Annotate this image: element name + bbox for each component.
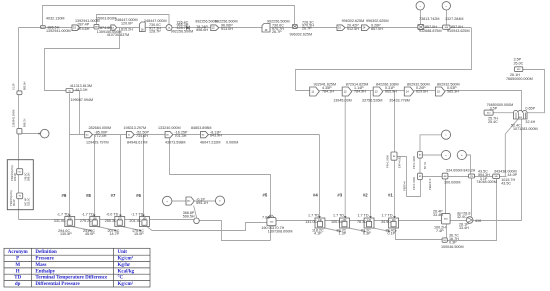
svg-text:0.000M: 0.000M xyxy=(226,140,238,144)
svg-text:287.4P: 287.4P xyxy=(78,22,90,26)
wire: box81-box82 link xyxy=(419,158,421,173)
svg-text:913.0H: 913.0H xyxy=(221,27,233,31)
feedwater heater 3 xyxy=(340,218,350,228)
svg-text:45.0P: 45.0P xyxy=(85,232,95,236)
svg-text:84803.898M: 84803.898M xyxy=(191,126,212,130)
svg-text:M: M xyxy=(15,263,20,268)
svg-text:#9: #9 xyxy=(62,193,67,198)
wire: circ water outlet box310 to condenser xyxy=(493,112,513,114)
svg-text:128.7P: 128.7P xyxy=(149,30,161,34)
wire: box81 up to circle C xyxy=(420,135,441,152)
splitter node 50 xyxy=(66,89,73,93)
svg-text:100.000M: 100.000M xyxy=(444,181,460,185)
wire: boiler feed pump to deaerator bottom xyxy=(199,221,270,241)
svg-text:-1.7 TD: -1.7 TD xyxy=(57,213,70,217)
svg-text:120.0P: 120.0P xyxy=(121,22,133,26)
gland seal circle left xyxy=(163,196,172,205)
svg-text:78.3C: 78.3C xyxy=(357,220,367,224)
deaerator 150 xyxy=(267,217,276,225)
valve 500 bypass admission xyxy=(292,25,297,29)
svg-text:784.1H: 784.1H xyxy=(322,89,334,93)
wire: HP exhaust cold line to node 50 xyxy=(45,28,120,91)
svg-text:595.1H: 595.1H xyxy=(196,201,208,205)
valve 430 xyxy=(94,24,99,29)
valve 30 xyxy=(187,26,190,30)
svg-text:-1.7 TD: -1.7 TD xyxy=(131,213,144,217)
svg-text:46047.232M: 46047.232M xyxy=(200,140,221,144)
vent box 170 xyxy=(469,174,475,178)
svg-text:500: 500 xyxy=(443,240,446,242)
svg-text:H: H xyxy=(16,269,20,274)
wire: condensate from condenser to pump 410 xyxy=(473,119,522,221)
svg-text:133240.000M: 133240.000M xyxy=(158,126,181,130)
svg-text:13945.03M: 13945.03M xyxy=(333,98,351,102)
svg-text:129429.797M: 129429.797M xyxy=(86,140,109,144)
svg-text:996302.625M: 996302.625M xyxy=(290,32,313,36)
condenser 300 xyxy=(514,110,528,119)
svg-text:EFF=0.82: EFF=0.82 xyxy=(398,156,402,168)
svg-text:198313.297M: 198313.297M xyxy=(124,126,147,130)
turbine stage 24 xyxy=(362,25,370,31)
svg-text:7.0dP: 7.0dP xyxy=(262,215,272,219)
circ water outlet 310 xyxy=(484,110,493,115)
svg-text:-0.0 TD: -0.0 TD xyxy=(106,213,119,217)
svg-text:1.7 TD: 1.7 TD xyxy=(308,214,319,218)
LP turbine stage 14 xyxy=(404,87,414,96)
svg-text:996302.625M: 996302.625M xyxy=(366,19,389,23)
LP turbine stage 15 xyxy=(435,87,445,96)
svg-text:#2: #2 xyxy=(363,193,368,198)
svg-text:874.6H: 874.6H xyxy=(78,27,90,31)
svg-text:857.0H: 857.0H xyxy=(371,27,383,31)
svg-text:883.0H: 883.0H xyxy=(23,82,27,90)
svg-text:141.0C: 141.0C xyxy=(305,220,317,224)
feedwater heater 7 xyxy=(115,217,125,227)
svg-text:Differential Pressure: Differential Pressure xyxy=(35,282,80,287)
svg-text:33756.526M: 33756.526M xyxy=(362,98,383,102)
svg-text:813.3H: 813.3H xyxy=(76,88,88,92)
svg-text:32.0C: 32.0C xyxy=(457,215,467,219)
wire: box400 down to polisher xyxy=(445,179,447,214)
wire: deaerator steam supply jog xyxy=(170,138,271,218)
condensate pump 410 xyxy=(466,217,473,224)
svg-text:76650000.000M: 76650000.000M xyxy=(506,77,533,81)
svg-text:169.0P: 169.0P xyxy=(13,173,17,181)
LP turbine stage 12 xyxy=(342,87,352,96)
svg-text:#5: #5 xyxy=(263,192,268,197)
turbine stage 22 xyxy=(211,25,219,31)
svg-text:15003.602M: 15003.602M xyxy=(96,16,117,20)
svg-text:599.5H: 599.5H xyxy=(183,215,195,219)
svg-text:910943.625M: 910943.625M xyxy=(447,29,470,33)
wire: box 80 side branch to box 82 xyxy=(397,157,421,197)
wire: drains manifold y=176.3 xyxy=(422,176,506,178)
feedwater heater 4 xyxy=(315,218,325,228)
svg-text:410: 410 xyxy=(475,219,481,223)
svg-text:4032.130M: 4032.130M xyxy=(46,17,64,21)
svg-text:1392941.000M: 1392941.000M xyxy=(12,110,16,127)
svg-text:815.2H: 815.2H xyxy=(121,27,133,31)
svg-text:~: ~ xyxy=(445,4,447,8)
svg-text:#4: #4 xyxy=(313,192,318,197)
svg-text:0.1P: 0.1P xyxy=(388,232,396,236)
svg-text:898.6H: 898.6H xyxy=(196,28,208,32)
main steam line component upper xyxy=(17,91,22,95)
svg-text:130.5P: 130.5P xyxy=(60,232,72,236)
svg-text:629.6H: 629.6H xyxy=(416,89,428,93)
svg-text:74048.000M: 74048.000M xyxy=(476,180,497,184)
svg-text:Enthalpy: Enthalpy xyxy=(35,269,55,274)
svg-text:784.9H: 784.9H xyxy=(354,89,366,93)
circ water inlet 320 xyxy=(514,67,522,72)
feedwater heater 8 xyxy=(90,217,100,227)
svg-text:51.2P: 51.2P xyxy=(12,83,16,90)
svg-text:1.7 TD: 1.7 TD xyxy=(358,214,369,218)
svg-text:665.9H: 665.9H xyxy=(385,89,397,93)
svg-text:-1.7 TD: -1.7 TD xyxy=(82,213,95,217)
wire: extraction drop to heater 2 xyxy=(370,91,372,219)
svg-text:0.65P: 0.65P xyxy=(525,107,535,111)
svg-text:772.4H: 772.4H xyxy=(95,134,107,138)
wire: gland steam regulator links xyxy=(172,201,216,218)
svg-text:33.4H: 33.4H xyxy=(459,226,469,230)
moisture separator 26 xyxy=(139,22,145,31)
legend table xyxy=(4,248,150,287)
wire: extraction drop to heater 3 xyxy=(344,91,346,219)
svg-text:15.0P: 15.0P xyxy=(134,232,144,236)
leakage box 80 xyxy=(391,152,397,160)
wire: box 170 down to pump 410 xyxy=(471,178,473,217)
IP turbine stage 40 xyxy=(85,131,93,137)
svg-text:99.0P: 99.0P xyxy=(12,199,16,206)
turbine stage 13 xyxy=(111,25,117,30)
LP turbine stage 13 xyxy=(373,87,383,96)
svg-text:992256.500M: 992256.500M xyxy=(215,19,238,23)
svg-text:°C: °C xyxy=(118,276,124,281)
IP turbine stage 80 xyxy=(165,131,173,137)
svg-text:Unit: Unit xyxy=(118,250,128,255)
wire: box340 drain down to drain cooler xyxy=(447,179,496,241)
boiler feed pump xyxy=(194,218,200,224)
wire: extraction drop to heater 8 xyxy=(94,135,96,217)
wire: extraction drop to heater 7 xyxy=(120,135,122,217)
svg-text:73813.742M: 73813.742M xyxy=(419,17,440,21)
svg-text:PR=1.3000: PR=1.3000 xyxy=(412,155,416,169)
svg-text:33.4H: 33.4H xyxy=(433,213,443,217)
IP turbine stage 90 xyxy=(201,131,209,137)
svg-text:586.5H: 586.5H xyxy=(27,173,31,181)
wire: spray line to circle xyxy=(22,133,41,135)
feedwater heater 1 xyxy=(389,218,399,228)
wire: LP turbine row y=90.8 xyxy=(296,91,522,112)
svg-text:0.3P: 0.3P xyxy=(363,232,371,236)
svg-text:331.0C: 331.0C xyxy=(54,219,66,223)
svg-text:992256.500M: 992256.500M xyxy=(171,29,194,33)
svg-text:32.4H: 32.4H xyxy=(525,120,535,124)
drain receiver circle B xyxy=(457,150,466,159)
drain cooler 500 xyxy=(442,238,447,242)
svg-text:14.7P: 14.7P xyxy=(110,232,120,236)
wire: boiler downcomer xyxy=(18,210,20,220)
svg-text:1071283.000M: 1071283.000M xyxy=(513,127,538,131)
svg-text:Acronym: Acronym xyxy=(8,250,29,255)
svg-text:TD: TD xyxy=(18,172,21,174)
wire: air ejector line from condenser xyxy=(505,119,518,177)
svg-text:912688.875M: 912688.875M xyxy=(419,29,442,33)
svg-text:3.5P: 3.5P xyxy=(490,106,498,110)
generator 2 xyxy=(442,2,450,10)
svg-text:7.4P: 7.4P xyxy=(436,229,444,233)
wire: generator stem 1 xyxy=(420,10,422,25)
wire: box81 to circle A xyxy=(422,154,441,156)
svg-text:255.3C: 255.3C xyxy=(105,219,117,223)
wire: main steam header from boiler riser to throttle valve xyxy=(19,27,41,29)
wire: heater drain cascades right group xyxy=(322,228,390,232)
throttle valve 420 xyxy=(41,26,46,29)
svg-text:#6: #6 xyxy=(136,193,141,198)
wire: boiler internal risers xyxy=(18,160,20,210)
generator shaft box 420 xyxy=(443,25,450,29)
svg-text:35433.778M: 35433.778M xyxy=(389,98,410,102)
generator shaft box 500 xyxy=(418,25,424,30)
feedwater heater 6 xyxy=(140,217,150,227)
leakage box 82 xyxy=(418,173,423,180)
wire: node 50 drops to IP row xyxy=(70,91,80,217)
svg-text:#8: #8 xyxy=(86,193,91,198)
spray attemperator circle xyxy=(40,129,49,138)
wire: extraction drop to heater 4 xyxy=(319,135,321,219)
svg-text:410730.837M: 410730.837M xyxy=(107,33,130,37)
svg-text:643.9H: 643.9H xyxy=(210,134,222,138)
svg-text:1.3P: 1.3P xyxy=(339,232,347,236)
svg-text:Pressure: Pressure xyxy=(35,257,54,262)
main steam line component lower xyxy=(17,129,22,134)
svg-text:65.7H: 65.7H xyxy=(423,162,427,169)
svg-text:26.7P: 26.7P xyxy=(302,27,312,31)
svg-text:dp: dp xyxy=(15,282,21,287)
svg-text:1327.284M: 1327.284M xyxy=(445,17,463,21)
turbine stage 19 LP admission xyxy=(337,25,345,31)
svg-text:279.2C: 279.2C xyxy=(80,219,92,223)
condensate polisher 460 xyxy=(441,214,450,224)
svg-text:#1: #1 xyxy=(388,193,393,198)
svg-text:1392941.000M: 1392941.000M xyxy=(46,29,71,33)
ejector condenser 340 xyxy=(493,174,500,179)
svg-text:201.4C: 201.4C xyxy=(129,219,141,223)
boiler TD box xyxy=(17,169,23,175)
generator 1 xyxy=(416,2,424,10)
LP turbine stage 11 xyxy=(310,87,320,96)
svg-text:#7: #7 xyxy=(111,193,116,198)
svg-text:996302.625M: 996302.625M xyxy=(342,19,365,23)
wire: polisher down to drain cooler xyxy=(446,224,448,238)
wire: circle B down to box 170 xyxy=(466,155,470,174)
svg-text:100.4C: 100.4C xyxy=(331,220,343,224)
svg-text:701.3H: 701.3H xyxy=(175,134,187,138)
svg-text:4.1P: 4.1P xyxy=(314,232,322,236)
svg-text:1.7 TD: 1.7 TD xyxy=(333,214,344,218)
gland seal circle right xyxy=(215,196,224,205)
svg-text:Definition: Definition xyxy=(35,250,57,255)
wire: feedwater line through HP heaters y=219 xyxy=(19,219,194,221)
svg-text:734.6H: 734.6H xyxy=(136,134,148,138)
wire: generator stem 2 xyxy=(446,10,448,25)
svg-text:0.3P: 0.3P xyxy=(449,240,457,244)
svg-text:TD: TD xyxy=(14,276,21,281)
svg-text:26.7P: 26.7P xyxy=(272,30,282,34)
gland exhaust circle xyxy=(441,130,450,139)
svg-text:898.7H: 898.7H xyxy=(23,119,27,127)
svg-text:Kg/cm²: Kg/cm² xyxy=(118,281,134,287)
gland steam regulator 440 xyxy=(186,197,194,205)
svg-text:43.5C: 43.5C xyxy=(501,181,511,185)
drain receiver circle A xyxy=(441,150,450,159)
wire: extraction drop to heater 6 xyxy=(143,135,145,217)
boiler drum box xyxy=(17,193,23,199)
svg-text:199087.094M: 199087.094M xyxy=(71,98,94,102)
feedwater heater 2 xyxy=(364,218,374,228)
svg-text:Mass: Mass xyxy=(35,263,46,268)
wire: IP extraction row y=134.6 xyxy=(70,134,320,136)
svg-text:1.7 TD: 1.7 TD xyxy=(382,214,393,218)
wire: main steam through HP turbine train y=27.5 xyxy=(45,27,471,29)
svg-text:282684.000M: 282684.000M xyxy=(89,126,112,130)
svg-text:Kg/hr: Kg/hr xyxy=(118,263,132,268)
svg-text:333.0C: 333.0C xyxy=(27,198,31,206)
svg-text:25.4C: 25.4C xyxy=(488,120,498,124)
wire: pump410 to polisher xyxy=(450,220,466,222)
svg-text:Terminal Temperature Differenc: Terminal Temperature Difference xyxy=(35,276,108,281)
svg-text:Kcal/kg: Kcal/kg xyxy=(118,269,135,274)
svg-text:P: P xyxy=(16,257,19,262)
svg-text:#3: #3 xyxy=(337,193,342,198)
wire: boiler riser x=18.9 xyxy=(18,28,20,160)
svg-text:1397308.000M: 1397308.000M xyxy=(268,229,293,233)
wire: MSR supply line y=14.6 xyxy=(97,15,170,25)
svg-text:Kg/cm²: Kg/cm² xyxy=(118,256,134,262)
svg-text:84948.617M: 84948.617M xyxy=(127,140,148,144)
wire: circulating water inlet loop xyxy=(523,70,545,113)
wire: crossover down and back to LP inlet xyxy=(296,28,472,91)
wire: condensate line through LP heaters y=220 xyxy=(276,220,441,222)
svg-text:PERF=0: PERF=0 xyxy=(402,181,406,191)
svg-text:334.000M 843.2H: 334.000M 843.2H xyxy=(446,168,476,172)
turbine stage 19 xyxy=(72,25,80,31)
svg-text:34.9C: 34.9C xyxy=(381,220,391,224)
svg-text:44.0P: 44.0P xyxy=(508,173,518,177)
svg-text:PEEFF=0: PEEFF=0 xyxy=(428,178,432,190)
mixer node 16 xyxy=(166,25,172,31)
svg-text:PR=1.5000: PR=1.5000 xyxy=(386,154,390,168)
svg-text:585.3H: 585.3H xyxy=(447,89,459,93)
reheater 26 xyxy=(262,24,270,33)
leakage box 81 xyxy=(418,152,423,159)
wire: bypass line to valve 500 xyxy=(43,6,295,26)
boiler xyxy=(7,160,33,210)
IP turbine stage 70 xyxy=(126,131,134,137)
svg-text:100046.500M: 100046.500M xyxy=(441,245,464,249)
svg-text:26.0C: 26.0C xyxy=(514,62,524,66)
svg-text:912.5H: 912.5H xyxy=(347,27,359,31)
svg-text:43073.598M: 43073.598M xyxy=(165,140,186,144)
svg-text:~: ~ xyxy=(419,4,421,8)
wire: heater1 drain to drain cooler xyxy=(396,228,443,240)
wire: heater drain cascades left group xyxy=(72,223,267,231)
feedwater heater 9 xyxy=(65,217,75,227)
vent box 400 xyxy=(442,173,448,179)
wire: extraction drop to heater 1 via box 80 xyxy=(394,91,396,219)
svg-text:PR=1.5000: PR=1.5000 xyxy=(412,176,416,190)
